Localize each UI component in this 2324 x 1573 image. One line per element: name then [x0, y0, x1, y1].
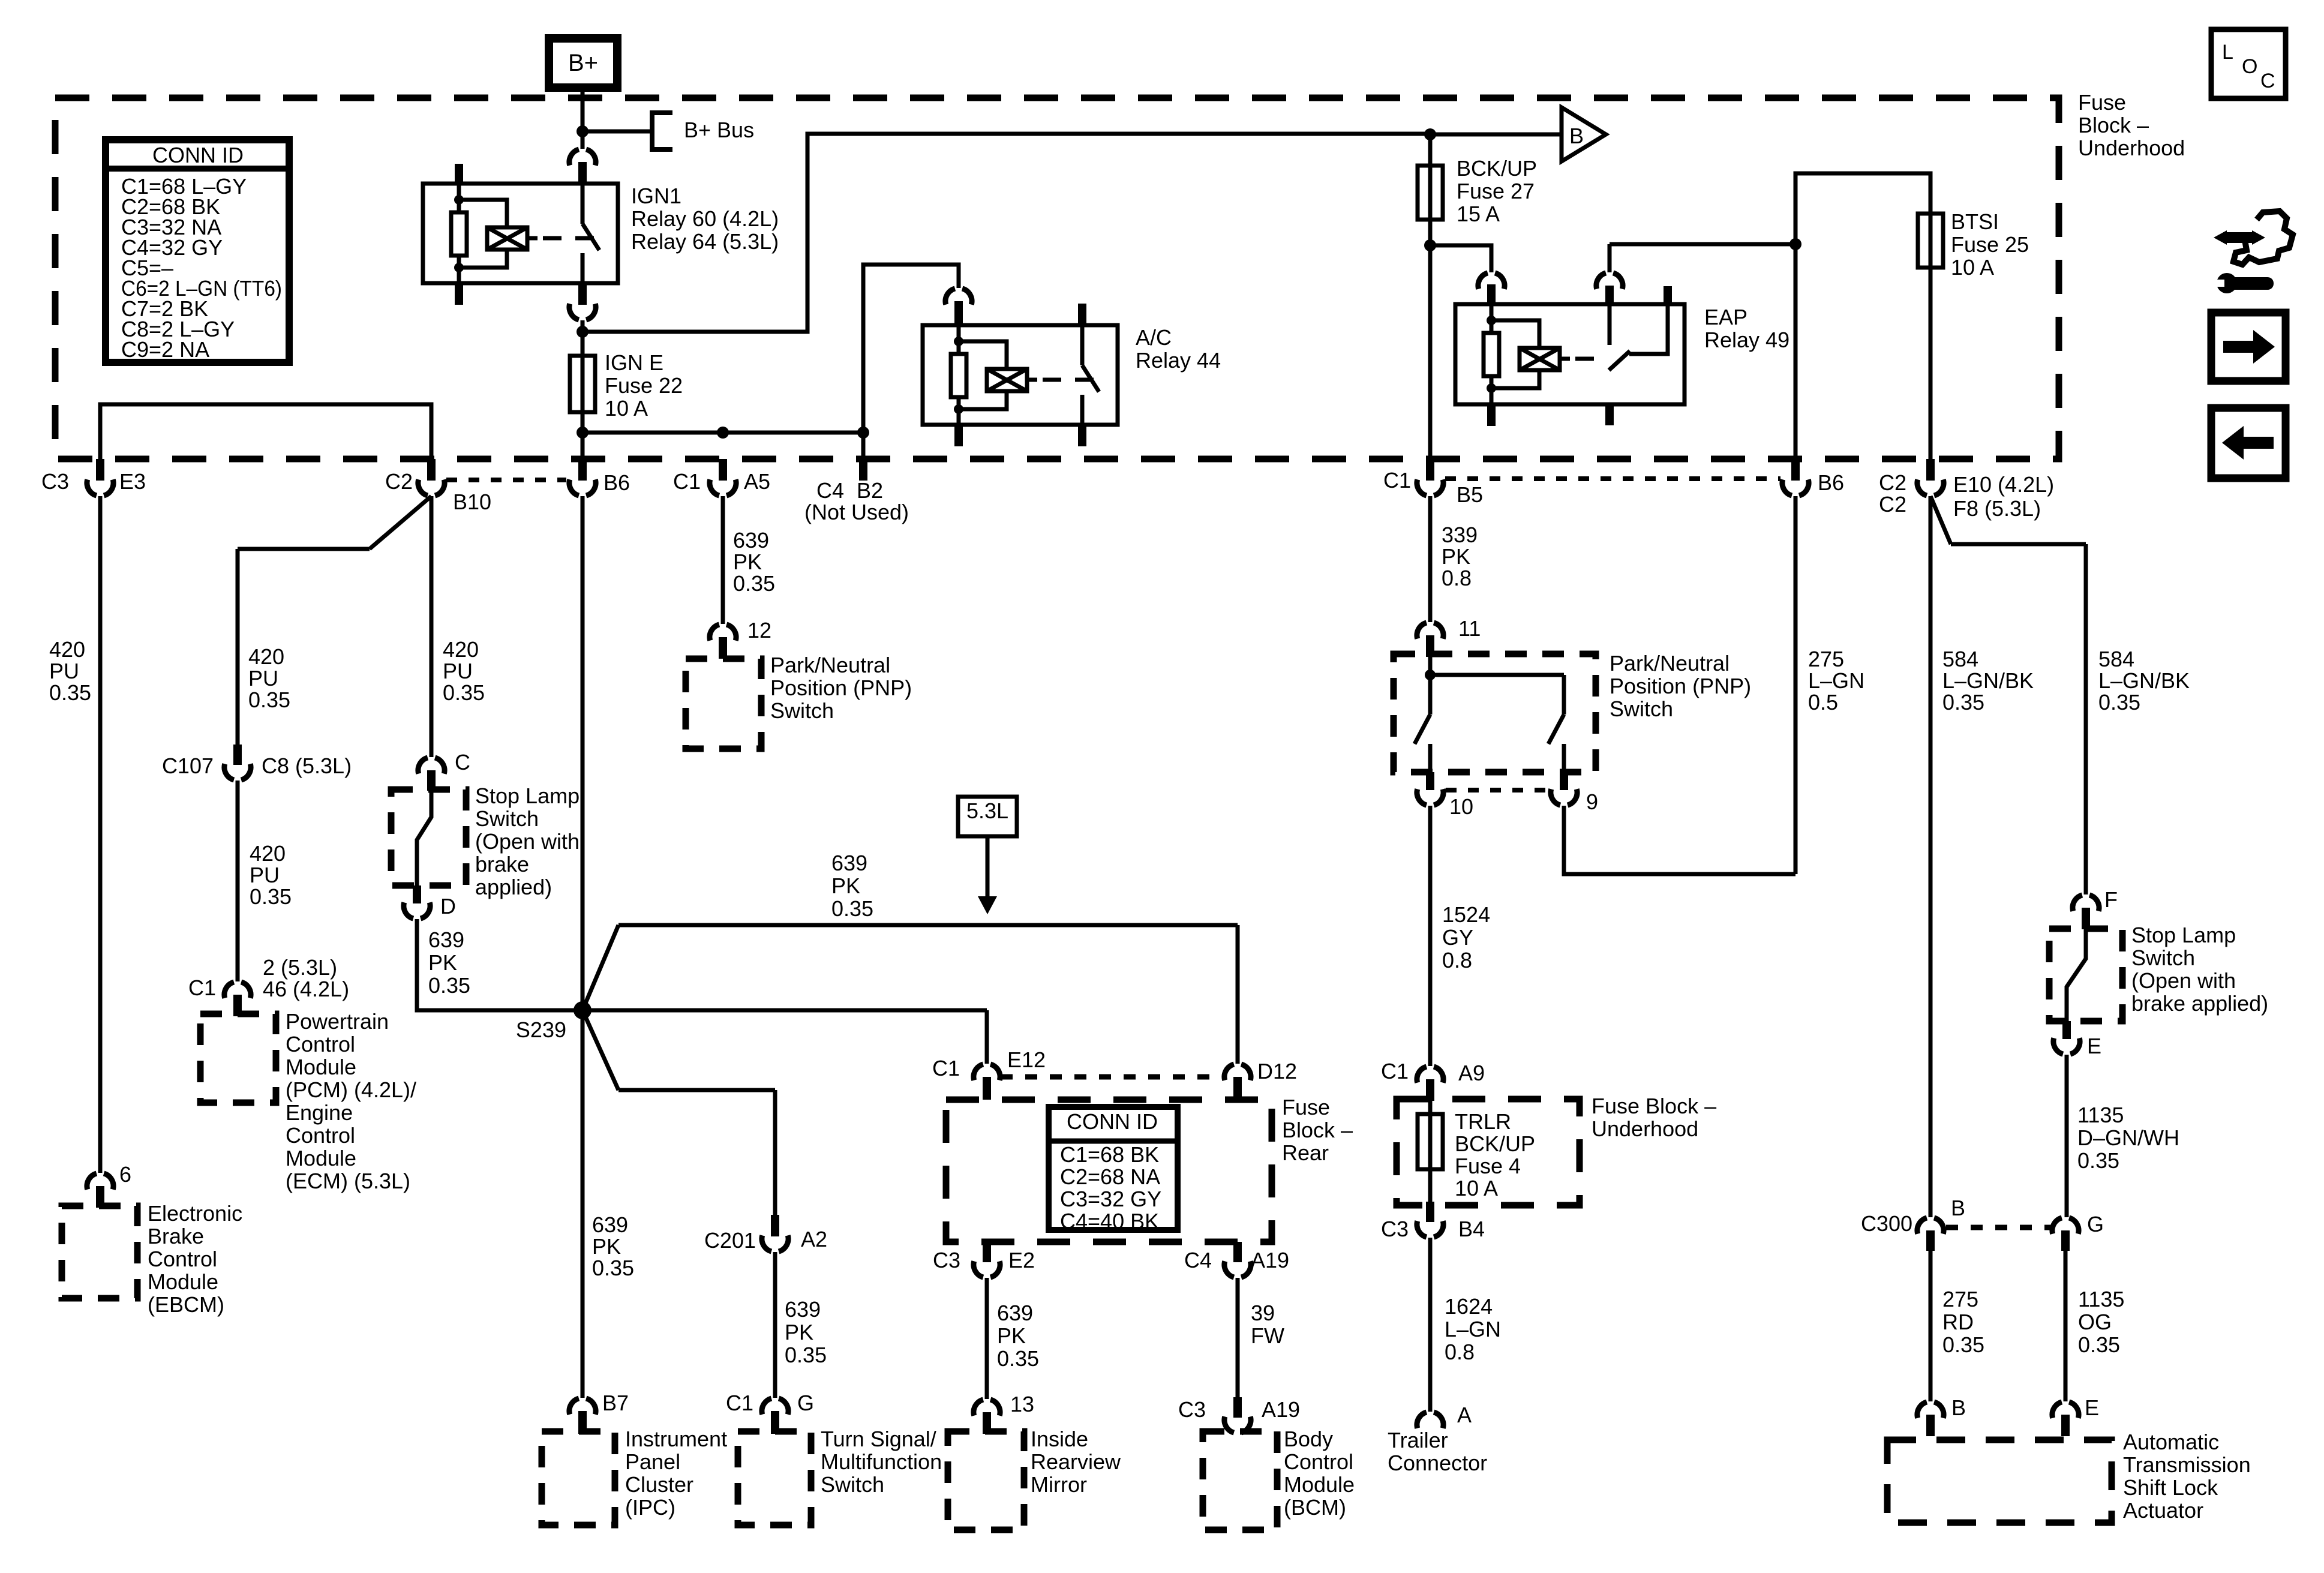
svg-text:C1: C1 [673, 469, 701, 494]
wire pin9 to B6 right riser [1564, 496, 1795, 874]
module turn signal box [738, 1431, 811, 1525]
svg-text:TRLR: TRLR [1455, 1109, 1511, 1134]
svg-text:C9=2 NA: C9=2 NA [121, 337, 209, 362]
B+ power symbol [549, 38, 617, 88]
svg-text:0.8: 0.8 [1442, 948, 1472, 972]
connector trailer A [1417, 1412, 1443, 1428]
svg-text:0.35: 0.35 [1942, 690, 1984, 715]
svg-text:Underhood: Underhood [2078, 136, 2185, 160]
svg-text:CONN ID: CONN ID [152, 143, 244, 167]
svg-text:C: C [455, 750, 470, 775]
connector C300 B [1917, 1218, 1944, 1234]
junction node B+ bus tap [577, 125, 588, 137]
svg-text:0.35: 0.35 [2098, 690, 2140, 715]
dotted link E12 D12 [1001, 1074, 1224, 1080]
op relay EAP Relay 49 [1455, 304, 1685, 404]
svg-text:(Not Used): (Not Used) [804, 500, 909, 524]
connector C4 B2 not used [859, 459, 867, 481]
svg-text:A19: A19 [1251, 1248, 1289, 1272]
svg-text:L–GN: L–GN [1808, 668, 1864, 693]
connector stop lamp E [2062, 1021, 2071, 1039]
svg-text:39: 39 [1251, 1301, 1275, 1325]
wire S239 to E12 [582, 1010, 987, 1064]
svg-text:Mirror: Mirror [1031, 1472, 1087, 1497]
svg-text:10 A: 10 A [1455, 1176, 1498, 1200]
connector IGN1 relay pin30 [569, 149, 596, 166]
connector C1 B5 [1426, 459, 1434, 481]
connector C1 A9 [1417, 1067, 1443, 1083]
svg-text:Switch: Switch [1610, 697, 1673, 721]
wire to EAP coil [1430, 245, 1491, 272]
dotted link C300 B G [1946, 1225, 2050, 1230]
fuse block underhood second dashed box [1397, 1099, 1580, 1205]
svg-text:11: 11 [1458, 616, 1481, 641]
svg-text:D: D [440, 894, 456, 918]
wire 420 PU E3 to EBCM [98, 496, 103, 1173]
svg-text:Block –: Block – [1282, 1118, 1353, 1142]
svg-text:B+ Bus: B+ Bus [684, 118, 754, 142]
svg-text:420: 420 [49, 637, 85, 662]
icon back arrow box [2211, 408, 2286, 478]
svg-text:(IPC): (IPC) [625, 1495, 675, 1520]
connector C3 E2 [983, 1242, 991, 1262]
fuse block underhood dashed border [55, 98, 2059, 459]
dotted link B5 to B6 [1445, 476, 1780, 481]
svg-text:46 (4.2L): 46 (4.2L) [263, 977, 349, 1001]
svg-text:C8 (5.3L): C8 (5.3L) [262, 754, 352, 778]
svg-text:C3: C3 [1178, 1397, 1206, 1422]
wire node to B6 right [1794, 244, 1798, 459]
svg-text:FW: FW [1251, 1323, 1284, 1348]
module PCM/ECM box [200, 1014, 276, 1103]
splice S239 [574, 1001, 591, 1019]
svg-text:Control: Control [286, 1032, 355, 1056]
svg-text:B: B [1951, 1196, 1965, 1220]
svg-text:A5: A5 [744, 469, 770, 494]
connector EBCM pin 6 [87, 1173, 113, 1190]
svg-text:Trailer: Trailer [1388, 1428, 1448, 1452]
svg-text:A9: A9 [1458, 1061, 1485, 1085]
svg-text:brake: brake [475, 852, 529, 876]
fuse BCK/UP Fuse 27 15A [1418, 166, 1443, 220]
svg-text:1135: 1135 [2078, 1287, 2124, 1311]
svg-text:Powertrain: Powertrain [286, 1009, 389, 1034]
svg-text:Rearview: Rearview [1031, 1449, 1121, 1474]
wire E10 fanout diagonal [1930, 496, 2086, 544]
wire 1524 GY pin10 to A9 [1428, 806, 1433, 1066]
svg-text:Switch: Switch [821, 1472, 884, 1497]
svg-text:PU: PU [248, 666, 278, 691]
arrow 5.3L pointer [986, 836, 990, 896]
stop lamp switch left box [391, 789, 466, 885]
svg-text:Panel: Panel [625, 1449, 680, 1474]
wire BCK/UP fuse to B5 [1428, 220, 1433, 459]
svg-text:PK: PK [785, 1320, 813, 1344]
svg-text:Shift Lock: Shift Lock [2123, 1475, 2218, 1500]
svg-text:Engine: Engine [286, 1100, 353, 1125]
connector EAP coil pin [1478, 273, 1505, 289]
svg-text:639: 639 [428, 927, 464, 952]
wire fuse22 to B6 [581, 412, 585, 459]
svg-text:Control: Control [286, 1123, 355, 1148]
svg-text:C300: C300 [1861, 1211, 1912, 1236]
svg-text:Connector: Connector [1388, 1451, 1487, 1475]
svg-text:CONN ID: CONN ID [1067, 1109, 1158, 1134]
wire through fuse22 [581, 356, 585, 412]
wire 639 PK C201 to turn signal [773, 1252, 777, 1398]
svg-text:S239: S239 [516, 1017, 566, 1042]
op relay A/C Relay 44 [923, 325, 1118, 425]
wire to BTSI fuse [1795, 173, 1930, 244]
svg-text:L: L [2222, 41, 2233, 64]
junction node EAP coil feed [1424, 239, 1436, 251]
svg-text:0.35: 0.35 [1942, 1332, 1984, 1357]
switch stop lamp right contacts [2067, 929, 2086, 1021]
svg-text:639: 639 [831, 851, 867, 875]
wire A9 to TRLR fuse [1428, 1101, 1433, 1114]
svg-text:C4: C4 [1184, 1248, 1212, 1272]
svg-text:Park/Neutral: Park/Neutral [1610, 651, 1730, 676]
svg-text:639: 639 [997, 1301, 1033, 1325]
svg-text:B6: B6 [603, 470, 630, 495]
connector B6 [578, 459, 587, 481]
svg-text:L–GN/BK: L–GN/BK [1942, 668, 2034, 693]
svg-text:OG: OG [2078, 1310, 2112, 1334]
connector stop lamp F [2073, 895, 2099, 911]
module BCM box [1203, 1431, 1277, 1530]
svg-text:RD: RD [1942, 1310, 1974, 1334]
connector PNP pin 11 [1417, 623, 1443, 639]
connector C1 A5 [719, 459, 727, 481]
svg-text:Underhood: Underhood [1592, 1116, 1698, 1141]
svg-text:C4: C4 [816, 478, 844, 503]
wire 639 PK B6 to IPC [581, 496, 585, 1398]
svg-text:C3=32 GY: C3=32 GY [1060, 1187, 1161, 1211]
svg-text:Electronic: Electronic [148, 1201, 242, 1226]
svg-text:Block –: Block – [2078, 113, 2149, 137]
svg-text:0.35: 0.35 [2078, 1332, 2120, 1357]
module EBCM box [62, 1206, 137, 1298]
svg-text:PK: PK [1442, 544, 1470, 569]
svg-text:B2: B2 [857, 478, 883, 503]
dotted link pin10 pin9 [1446, 788, 1547, 792]
connector C3 A19 BCM [1233, 1397, 1242, 1418]
svg-text:(Open with: (Open with [475, 829, 580, 854]
wire through fuse4 [1428, 1114, 1433, 1169]
svg-text:E: E [2085, 1395, 2099, 1420]
svg-text:B6: B6 [1818, 470, 1844, 495]
svg-text:PK: PK [592, 1234, 621, 1259]
connector B6 right [1791, 459, 1800, 481]
svg-text:0.35: 0.35 [997, 1346, 1039, 1371]
svg-text:L–GN: L–GN [1445, 1317, 1501, 1341]
svg-text:A: A [1457, 1403, 1472, 1427]
svg-text:PK: PK [997, 1323, 1026, 1348]
wire 639 PK A5 to PNP12 [721, 496, 725, 624]
junction node A5 tap [717, 427, 729, 439]
pnp right internal feed [1430, 657, 1564, 675]
wire 339 PK B5 to PNP11 [1428, 496, 1433, 622]
wire 275 RD to actuator B [1929, 1251, 1933, 1401]
svg-text:G: G [797, 1391, 814, 1415]
svg-text:A19: A19 [1262, 1397, 1300, 1422]
svg-text:C: C [2260, 70, 2275, 92]
svg-text:(PCM) (4.2L)/: (PCM) (4.2L)/ [286, 1077, 416, 1102]
svg-text:BCK/UP: BCK/UP [1455, 1131, 1535, 1156]
svg-text:5.3L: 5.3L [966, 798, 1008, 823]
svg-text:6: 6 [119, 1162, 131, 1187]
svg-text:E: E [2087, 1034, 2101, 1058]
svg-text:Switch: Switch [475, 806, 539, 831]
svg-text:420: 420 [248, 644, 284, 669]
svg-text:C107: C107 [162, 754, 214, 778]
wire 1135 D-GN/WH to C300 G [2065, 1055, 2069, 1217]
svg-text:Control: Control [1284, 1449, 1353, 1474]
pnp switch left box [686, 659, 761, 749]
svg-text:639: 639 [733, 528, 769, 553]
svg-text:A/C: A/C [1136, 325, 1172, 350]
svg-text:C1: C1 [1383, 468, 1411, 493]
connector stop lamp C [418, 758, 445, 774]
svg-text:0.35: 0.35 [831, 896, 873, 921]
svg-text:B5: B5 [1457, 482, 1483, 507]
connector PNP pin 12 [710, 625, 736, 641]
svg-text:275: 275 [1942, 1287, 1978, 1311]
wire B10 fanout diagonal [238, 496, 431, 549]
svg-text:E12: E12 [1007, 1047, 1046, 1072]
connector actuator E [2052, 1402, 2079, 1418]
svg-text:584: 584 [2098, 647, 2134, 671]
svg-text:PK: PK [831, 873, 860, 898]
svg-text:584: 584 [1942, 647, 1978, 671]
legend CONN ID rear [1049, 1107, 1178, 1230]
svg-text:15 A: 15 A [1457, 202, 1500, 226]
connector A/C relay coil pin [945, 289, 972, 305]
svg-text:D12: D12 [1257, 1059, 1297, 1083]
svg-text:O: O [2242, 55, 2257, 78]
svg-text:BCK/UP: BCK/UP [1457, 156, 1537, 181]
svg-text:C3: C3 [41, 469, 69, 494]
svg-text:C201: C201 [704, 1228, 756, 1253]
wire IGN1 out to fuse [581, 320, 585, 356]
svg-text:0.35: 0.35 [49, 680, 91, 705]
wire 420 PU to PCM [236, 781, 240, 981]
junction node fuse22 out [577, 427, 588, 439]
svg-text:B: B [1569, 124, 1584, 148]
svg-text:(BCM): (BCM) [1284, 1495, 1346, 1520]
svg-text:C2=68 NA: C2=68 NA [1060, 1164, 1160, 1189]
svg-text:639: 639 [592, 1212, 628, 1237]
connector C4 A19 [1233, 1242, 1242, 1262]
wire 1135 OG to actuator E [2064, 1251, 2068, 1401]
fuse TRLR BCK/UP Fuse 4 [1418, 1114, 1443, 1169]
svg-text:E3: E3 [119, 469, 146, 494]
svg-text:C2: C2 [385, 469, 413, 494]
wire TRLR fuse to B4 [1428, 1169, 1433, 1202]
svg-text:0.35: 0.35 [250, 884, 292, 909]
svg-text:0.35: 0.35 [428, 973, 470, 998]
svg-text:Relay 49: Relay 49 [1704, 328, 1789, 352]
fuse IGN E Fuse 22 10A [570, 356, 595, 412]
connector EAP switch pin [1596, 273, 1623, 289]
svg-text:B: B [1951, 1395, 1966, 1420]
svg-text:Position (PNP): Position (PNP) [770, 676, 912, 700]
svg-text:C1=68 BK: C1=68 BK [1060, 1142, 1159, 1167]
connector C300 G [2052, 1218, 2079, 1234]
svg-text:Fuse 22: Fuse 22 [605, 373, 683, 398]
svg-text:Module: Module [286, 1146, 356, 1170]
wire 420 PU B10 to stop lamp switch [430, 496, 434, 757]
svg-text:420: 420 [250, 841, 286, 866]
connector C3 E3 [96, 459, 104, 481]
LOC legend box [2211, 29, 2286, 98]
connector C2 E10 F8 [1926, 459, 1935, 481]
junction node BCK/UP top [1424, 128, 1436, 140]
svg-text:Park/Neutral: Park/Neutral [770, 653, 890, 677]
svg-text:G: G [2087, 1212, 2104, 1236]
junction node pnp11 [1425, 670, 1436, 680]
svg-text:PU: PU [443, 659, 473, 683]
fuse BTSI Fuse 25 10A [1918, 214, 1943, 268]
svg-text:Stop Lamp: Stop Lamp [2131, 923, 2236, 947]
wire 639 PK D to S239 [417, 919, 582, 1010]
dotted link B10 to B6 [446, 478, 566, 482]
svg-text:Transmission: Transmission [2123, 1452, 2251, 1477]
svg-text:(ECM) (5.3L): (ECM) (5.3L) [286, 1169, 410, 1193]
svg-text:Switch: Switch [2131, 945, 2195, 970]
svg-text:B4: B4 [1458, 1217, 1485, 1241]
connector 13 mirror [974, 1400, 1000, 1416]
connector C1 G turn signal [762, 1398, 788, 1415]
connector B7 IPC [569, 1398, 596, 1415]
svg-text:Brake: Brake [148, 1224, 204, 1248]
svg-text:1524: 1524 [1442, 902, 1490, 927]
op relay IGN1 [423, 184, 618, 283]
svg-text:Fuse 25: Fuse 25 [1951, 232, 2029, 257]
switch pnp left contact [1415, 675, 1430, 772]
svg-text:C4=40 BK: C4=40 BK [1060, 1209, 1159, 1233]
connector C107 C8 [233, 745, 242, 765]
junction node ignition feed [577, 326, 588, 338]
svg-text:0.8: 0.8 [1445, 1340, 1475, 1364]
svg-text:PU: PU [49, 659, 79, 683]
junction node BTSI feed [1789, 238, 1801, 250]
B+ Bus bracket [652, 113, 672, 149]
module inside rearview mirror box [948, 1431, 1024, 1530]
wire 420 PU to C107 [236, 549, 240, 745]
wire EAP switch feed [1610, 244, 1795, 272]
module IPC box [542, 1431, 615, 1525]
svg-text:B+: B+ [568, 50, 598, 76]
svg-text:0.35: 0.35 [443, 680, 485, 705]
wire S239 to C201 run [582, 1010, 775, 1215]
svg-text:C1: C1 [1381, 1059, 1409, 1083]
wire fuse22 out east to B2 column [582, 431, 863, 435]
connector actuator B [1917, 1402, 1944, 1418]
svg-text:E2: E2 [1008, 1248, 1035, 1272]
fuse block rear dashed box [946, 1100, 1272, 1242]
svg-text:10: 10 [1449, 794, 1473, 819]
svg-text:F: F [2104, 887, 2118, 912]
svg-text:(EBCM): (EBCM) [148, 1292, 224, 1317]
wire B2 stub [861, 433, 866, 459]
svg-text:420: 420 [443, 637, 479, 662]
svg-text:F8 (5.3L): F8 (5.3L) [1953, 496, 2041, 521]
svg-text:Multifunction: Multifunction [821, 1449, 942, 1474]
svg-text:1624: 1624 [1445, 1294, 1493, 1319]
svg-text:Module: Module [1284, 1472, 1355, 1497]
junction node B2 column [857, 427, 869, 439]
wire E3 to B10 inside fuse block [100, 404, 431, 459]
svg-text:Stop Lamp: Stop Lamp [475, 784, 580, 808]
svg-text:Fuse: Fuse [1282, 1095, 1330, 1119]
connector PNP pin 9 [1560, 772, 1568, 790]
svg-text:0.35: 0.35 [785, 1343, 827, 1367]
svg-text:Fuse: Fuse [2078, 90, 2126, 115]
svg-text:0.35: 0.35 [2077, 1148, 2119, 1173]
wire through fuse27 [1428, 166, 1433, 220]
svg-text:PK: PK [428, 950, 457, 975]
svg-text:PK: PK [733, 550, 762, 574]
svg-text:applied): applied) [475, 875, 552, 899]
connector stop lamp D [413, 885, 421, 903]
svg-text:13: 13 [1010, 1392, 1034, 1416]
wire into BCK/UP fuse [1428, 134, 1433, 166]
svg-text:(Open with: (Open with [2131, 968, 2236, 993]
wire to off-page B [1430, 133, 1562, 137]
svg-text:C2: C2 [1879, 492, 1906, 517]
svg-text:Relay 60 (4.2L): Relay 60 (4.2L) [631, 206, 779, 231]
connector C3 B4 [1426, 1202, 1434, 1222]
svg-text:B10: B10 [453, 490, 491, 514]
svg-text:PU: PU [250, 863, 280, 887]
svg-text:Cluster: Cluster [625, 1472, 693, 1497]
svg-text:Relay 44: Relay 44 [1136, 348, 1221, 373]
svg-text:C2: C2 [1879, 470, 1906, 495]
wire ignition feed east run [582, 134, 1430, 332]
svg-text:Fuse 27: Fuse 27 [1457, 179, 1535, 203]
wire 1624 L-GN to trailer [1428, 1238, 1433, 1412]
svg-text:A2: A2 [801, 1227, 827, 1251]
svg-text:Inside: Inside [1031, 1427, 1088, 1451]
svg-text:IGN1: IGN1 [631, 184, 681, 208]
svg-text:Fuse 4: Fuse 4 [1455, 1154, 1521, 1178]
svg-text:639: 639 [785, 1297, 821, 1322]
svg-text:2 (5.3L): 2 (5.3L) [263, 955, 337, 980]
engine tag 5.3L box [958, 797, 1017, 836]
svg-text:L–GN/BK: L–GN/BK [2098, 668, 2190, 693]
svg-text:Fuse Block –: Fuse Block – [1592, 1094, 1716, 1118]
wire riser to A/C relay coil [863, 265, 959, 433]
svg-text:0.35: 0.35 [248, 688, 290, 712]
svg-text:Actuator: Actuator [2123, 1498, 2203, 1523]
svg-text:9: 9 [1586, 789, 1598, 814]
svg-text:275: 275 [1808, 647, 1844, 671]
connector C1 PCM pin 2/46 [224, 982, 251, 998]
wire BTSI to E10 [1929, 268, 1933, 459]
connector below IGN1 relay [569, 304, 596, 320]
svg-text:Turn Signal/: Turn Signal/ [821, 1427, 936, 1451]
module shift lock actuator box [1887, 1440, 2112, 1523]
wire to B+ Bus [582, 130, 652, 134]
svg-text:IGN E: IGN E [605, 350, 663, 375]
wire S239 to D12 run [582, 925, 1238, 1064]
svg-text:brake applied): brake applied) [2131, 991, 2268, 1016]
svg-text:0.5: 0.5 [1808, 690, 1838, 715]
icon forward arrow box [2211, 313, 2286, 381]
switch pnp right contact [1548, 675, 1564, 772]
svg-text:0.35: 0.35 [592, 1256, 634, 1280]
